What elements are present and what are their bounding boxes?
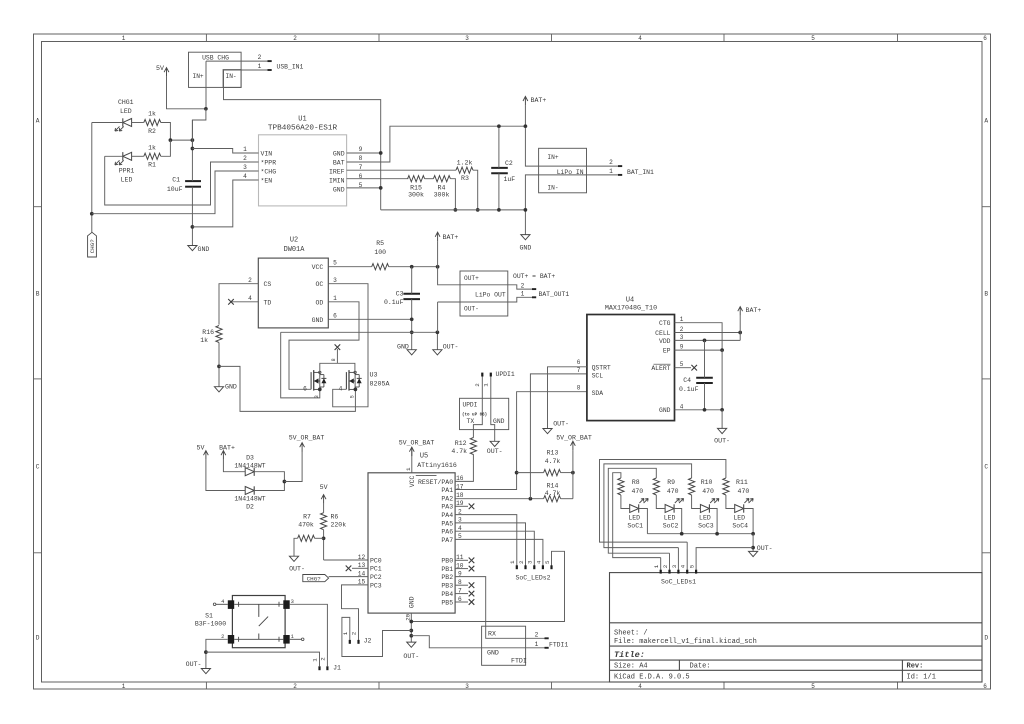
svg-text:2: 2 (609, 159, 613, 166)
svg-text:18: 18 (456, 492, 464, 499)
ground GND below R16 (214, 383, 237, 392)
connector FTDI box (482, 626, 527, 665)
ground OUT- (S1) (186, 661, 211, 674)
svg-text:R14: R14 (547, 483, 559, 490)
svg-text:B: B (984, 290, 988, 297)
svg-text:2: 2 (474, 383, 481, 387)
svg-text:OUT-: OUT- (487, 448, 503, 455)
svg-text:C: C (36, 463, 40, 470)
wire pin stub 3 (677, 548, 679, 570)
svg-text:Rev:: Rev: (907, 663, 924, 671)
title block (610, 623, 983, 682)
svg-text:5V_OR_BAT: 5V_OR_BAT (289, 435, 325, 442)
wire EN pin4 (192, 180, 258, 227)
svg-text:GND: GND (519, 245, 531, 252)
wire R7 left to OUT- (294, 538, 298, 556)
svg-text:SoC2: SoC2 (663, 523, 679, 530)
connector SoC_LEDs1 outline box / sheet comment box (610, 573, 983, 682)
junction GND/C4 (703, 408, 707, 412)
junction OR node (283, 480, 287, 484)
svg-text:OUT-: OUT- (714, 438, 730, 445)
resistor R2 (144, 111, 161, 135)
svg-text:GND: GND (659, 407, 671, 414)
wire LED SoC4 cathode (744, 509, 753, 534)
resistor R13 (544, 449, 561, 475)
wire GND pin5 (347, 187, 381, 189)
power flag BAT+ (diode OR) (219, 445, 235, 460)
wire GND pin6 (328, 318, 411, 320)
transistor U3 right FET (339, 370, 362, 398)
wire R14 right (561, 498, 573, 500)
svg-text:6: 6 (577, 359, 581, 366)
svg-text:UPDI: UPDI (463, 401, 478, 408)
wire OUT- symbol stem (436, 332, 438, 349)
no-connect ALERT pin5 (675, 367, 692, 369)
svg-text:BAT: BAT (333, 159, 345, 166)
wire 5V rail through C1 (191, 120, 193, 181)
svg-text:GND: GND (225, 383, 237, 390)
svg-text:USB_IN1: USB_IN1 (277, 64, 304, 71)
junction pin5 (379, 186, 383, 190)
wire pin stub 1 (660, 558, 662, 570)
svg-text:C4: C4 (683, 377, 691, 384)
no-connect PB0 (455, 559, 468, 561)
svg-text:D3: D3 (246, 454, 254, 461)
wire OUT- to J1 pin1 (206, 652, 320, 666)
wire R16 bottom (218, 343, 220, 387)
wire OUT+ pin 2 (460, 285, 532, 289)
resistor R10 (689, 478, 715, 495)
wire UPDI GND (491, 376, 495, 441)
wire OUT- pin 1 (438, 301, 460, 303)
resistor R8 (618, 478, 643, 495)
resistor R7 (298, 514, 315, 542)
wire 5V to D2 (206, 460, 245, 491)
wire R1 up to junction (161, 140, 171, 156)
svg-text:(to uP 06): (to uP 06) (462, 412, 487, 417)
resistor R14 (544, 483, 561, 502)
U2 pin names (264, 264, 324, 324)
svg-text:300k: 300k (434, 192, 450, 199)
wire OR node to 5V_OR_BAT (284, 452, 302, 482)
no-connect PB3 (455, 584, 468, 586)
wire PC2 (329, 576, 368, 578)
wire PA2 to R14/SCL (455, 498, 543, 500)
wire BAT+ stem (U4) (739, 316, 741, 341)
svg-text:2: 2 (521, 282, 525, 289)
connector UPDI box (460, 398, 509, 429)
svg-text:220k: 220k (331, 522, 347, 529)
svg-text:2: 2 (535, 631, 539, 638)
wire VDD pin3 (675, 339, 741, 341)
U1 left pin numbers (243, 146, 247, 180)
svg-text:Title:: Title: (614, 650, 645, 660)
wire R4 to GND rail (450, 179, 455, 210)
svg-text:S1: S1 (205, 612, 213, 619)
svg-text:FTDI1: FTDI1 (549, 641, 568, 648)
svg-text:4.7k: 4.7k (545, 458, 561, 465)
junction R4 foot (454, 208, 458, 212)
svg-text:470: 470 (667, 488, 679, 495)
capacitor C3 (384, 290, 420, 306)
svg-text:PA3: PA3 (441, 504, 453, 511)
svg-text:CTG: CTG (659, 320, 671, 327)
svg-text:20: 20 (404, 613, 411, 620)
wire PB2 to RX (455, 577, 545, 639)
svg-text:1: 1 (122, 683, 126, 690)
power flag 5V_OR_BAT (right) (556, 434, 592, 450)
svg-text:1N4148WT: 1N4148WT (234, 462, 265, 469)
junction PA1/R13/SDA (515, 471, 519, 475)
no-connect PB5 (455, 601, 468, 603)
resistor R15 (408, 176, 425, 199)
svg-text:LED: LED (699, 515, 711, 522)
svg-text:*EN: *EN (261, 177, 273, 184)
svg-text:3: 3 (333, 277, 337, 284)
svg-text:4.7k: 4.7k (451, 448, 467, 455)
svg-text:1: 1 (535, 641, 539, 648)
wire OD pin1 to left FET gate (289, 302, 359, 390)
op-amp U4 MAX17048G_T10 body (587, 296, 675, 420)
svg-text:SDA: SDA (592, 390, 604, 397)
wire USB IN+ pin 2 (206, 60, 268, 62)
svg-text:BAT_OUT1: BAT_OUT1 (539, 291, 570, 298)
op-amp U5 ATtiny1616 body (368, 453, 457, 613)
svg-text:CS: CS (264, 281, 272, 288)
svg-text:UPDI1: UPDI1 (496, 371, 515, 378)
wire R15-R4 (425, 178, 434, 180)
junction C2 bottom (497, 208, 501, 212)
svg-text:1: 1 (258, 63, 262, 70)
svg-text:5: 5 (333, 260, 337, 267)
wire BAT+ to D3 (223, 460, 245, 472)
svg-text:2: 2 (248, 277, 252, 284)
svg-text:*CHG: *CHG (261, 168, 277, 175)
svg-text:ALERT: ALERT (651, 365, 670, 372)
junction R2/R1 (169, 138, 173, 142)
svg-text:4: 4 (638, 35, 642, 42)
svg-text:PA7: PA7 (441, 537, 453, 544)
svg-text:PA1: PA1 (441, 487, 453, 494)
svg-text:0.1uF: 0.1uF (384, 299, 404, 306)
svg-text:IN+: IN+ (193, 73, 204, 80)
wire VCC pin5 to R5 (328, 266, 371, 268)
junction BAT+/OUT+ (436, 265, 440, 269)
wire PA6 to SoC_LEDs2 pin3 (455, 531, 534, 565)
no-connect TD pin4 (231, 301, 258, 303)
svg-text:5V_OR_BAT: 5V_OR_BAT (399, 439, 435, 446)
svg-text:OUT-: OUT- (553, 420, 569, 427)
svg-text:BAT+: BAT+ (443, 234, 459, 241)
connector LiPo IN (539, 148, 587, 193)
U1 right pin numbers (359, 146, 363, 189)
power flag 5V (156, 65, 169, 77)
wire PPR pin2 (105, 156, 259, 205)
svg-text:PA2: PA2 (441, 495, 453, 502)
junction GND rail 2 (409, 629, 413, 633)
svg-text:J2: J2 (364, 638, 372, 645)
svg-text:OUT-: OUT- (289, 565, 305, 572)
wire feed loop R9 (608, 468, 669, 553)
svg-text:IREF: IREF (329, 168, 345, 175)
connector SoC_LEDs2 pads (516, 565, 553, 569)
svg-text:9: 9 (680, 344, 684, 351)
wire PA1 to R13/SDA (455, 473, 516, 490)
op-amp U1 TPB4056A20-ES1R body (259, 115, 347, 206)
junction left FET drain (318, 388, 322, 392)
svg-text:8: 8 (359, 155, 363, 162)
junction right FET drain (354, 388, 358, 392)
svg-text:3: 3 (465, 35, 469, 42)
wire C2 bottom (498, 173, 500, 210)
wire C2 top (498, 126, 500, 168)
svg-text:OD: OD (315, 299, 323, 306)
connector LiPo OUT (460, 271, 508, 316)
svg-text:U1: U1 (298, 115, 306, 123)
wire R3 to GND rail (473, 170, 478, 210)
svg-text:300k: 300k (408, 192, 424, 199)
svg-text:Size: A4: Size: A4 (614, 663, 648, 671)
svg-text:Sheet: /: Sheet: / (614, 629, 648, 637)
connector UPDI pad 1 (490, 373, 492, 377)
svg-text:D2: D2 (246, 503, 254, 510)
junction GND rail 3 (409, 634, 413, 638)
U5 VCC pin 1 (411, 447, 413, 473)
svg-text:PA4: PA4 (441, 512, 453, 519)
svg-text:1: 1 (680, 316, 684, 323)
resistor R4 (433, 176, 450, 199)
pin 2 end (FTDI) (545, 637, 549, 639)
svg-text:8: 8 (577, 385, 581, 392)
wire R2 to 5V rail (161, 123, 193, 141)
wire pin stub 2 (669, 553, 671, 570)
junction C1 top rail (191, 147, 195, 151)
svg-text:GND: GND (198, 246, 210, 253)
svg-text:PB5: PB5 (441, 599, 453, 606)
svg-text:2: 2 (258, 54, 262, 61)
U1 left pin names (261, 150, 277, 184)
svg-text:5V: 5V (156, 65, 164, 72)
LED CHG1 (115, 99, 134, 131)
junction R13/5V_OR_BAT (571, 471, 575, 475)
svg-text:OUT-: OUT- (186, 661, 202, 668)
svg-text:IN-: IN- (547, 184, 558, 191)
power flag 5V (diode OR) (197, 445, 209, 460)
svg-text:VCC: VCC (312, 264, 324, 271)
wire R7 right (315, 537, 324, 539)
svg-text:CHG?: CHG? (307, 576, 322, 583)
power flag BAT+ top (523, 96, 546, 105)
svg-text:B3F-1000: B3F-1000 (195, 620, 226, 627)
wire PPR1 anode (105, 155, 123, 157)
U5 right pin numbers (456, 475, 464, 603)
pin 1 end (268, 69, 272, 71)
wire D3 to OR node (254, 472, 284, 482)
ground OUT- (U4) (714, 428, 730, 444)
svg-text:MAX17048G_T10: MAX17048G_T10 (605, 305, 657, 313)
svg-text:5V: 5V (320, 484, 328, 491)
svg-text:SoC_LEDs1: SoC_LEDs1 (661, 578, 696, 585)
U5 right pin names (418, 479, 453, 607)
switch S1 B3F-1000 (195, 596, 304, 648)
svg-text:1uF: 1uF (504, 176, 516, 183)
svg-text:3: 3 (680, 334, 684, 341)
wire IN+ down (205, 61, 207, 109)
svg-text:2: 2 (351, 631, 358, 635)
wire OUT- rail (281, 331, 438, 333)
wire feed loop R11 (600, 460, 726, 543)
junction C3 top (410, 265, 414, 269)
overline RESET (416, 474, 437, 476)
wire 5V to R6 (323, 504, 325, 513)
svg-text:4: 4 (243, 173, 247, 180)
svg-text:5: 5 (680, 361, 684, 368)
ground GND below C3 (397, 343, 416, 355)
svg-text:5V: 5V (197, 445, 205, 452)
svg-text:OUT-: OUT- (443, 343, 459, 350)
svg-text:1: 1 (609, 168, 613, 175)
wire rail to OUT- (752, 534, 754, 552)
LED SoC2 (663, 498, 684, 529)
wire CHG pin3 (92, 171, 259, 214)
U5 left pin numbers (358, 554, 366, 586)
svg-text:1: 1 (311, 658, 318, 662)
svg-text:PB3: PB3 (441, 583, 453, 590)
U5 left pin names (370, 557, 382, 589)
svg-text:4: 4 (680, 403, 684, 410)
wire SoC_LEDs2 pin5 to GND rail (411, 551, 564, 621)
wire GND pin4 (675, 409, 723, 411)
power flag BAT+ mid (435, 232, 458, 241)
svg-text:IMIN: IMIN (329, 177, 345, 184)
svg-text:470: 470 (702, 488, 714, 495)
U4 right pin names (651, 320, 670, 414)
svg-text:2: 2 (680, 326, 684, 333)
junction GND stem (524, 208, 528, 212)
svg-text:4: 4 (680, 564, 687, 568)
svg-text:QSTRT: QSTRT (592, 365, 611, 372)
svg-text:ATtiny1616: ATtiny1616 (417, 462, 457, 469)
svg-text:R9: R9 (667, 479, 675, 486)
wire PA5 to SoC_LEDs2 pin2 (455, 523, 525, 566)
junction GND pin6/C3 (410, 317, 414, 321)
svg-text:1k: 1k (148, 144, 156, 151)
svg-text:SoC_LEDs2: SoC_LEDs2 (515, 575, 550, 582)
wire FTDI GND (411, 636, 545, 648)
svg-text:4: 4 (339, 386, 343, 393)
ground GND below LiPo IN (519, 235, 531, 252)
wire R8 to LED (621, 495, 630, 509)
svg-text:RESET/PA0: RESET/PA0 (418, 479, 453, 486)
svg-text:OUT+ = BAT+: OUT+ = BAT+ (513, 273, 555, 280)
svg-text:LED: LED (664, 515, 676, 522)
junction GND rail 1 (409, 620, 413, 624)
svg-text:R3: R3 (461, 175, 469, 182)
junction OUT- rail (436, 330, 440, 334)
connector UPDI pad 2 (481, 373, 483, 377)
svg-text:1: 1 (482, 383, 489, 387)
svg-text:CHG1: CHG1 (118, 99, 134, 106)
svg-text:IN+: IN+ (547, 154, 558, 161)
no-connect PB1 (455, 568, 468, 570)
svg-text:J1: J1 (333, 665, 341, 672)
svg-text:6: 6 (333, 312, 337, 319)
svg-text:File: makercell_v1_final.kicad: File: makercell_v1_final.kicad_sch (614, 638, 757, 646)
SoC_LEDs1 pin numbers (653, 564, 695, 568)
svg-text:GND: GND (409, 596, 416, 608)
svg-text:C1: C1 (172, 177, 180, 184)
no-connect PB4 (455, 593, 468, 595)
ground GND below C1 (188, 246, 210, 254)
svg-text:PPR1: PPR1 (119, 168, 135, 175)
wire CHG net left (91, 123, 93, 233)
svg-text:DW01A: DW01A (284, 246, 306, 254)
svg-text:SoC3: SoC3 (698, 523, 714, 530)
svg-text:470k: 470k (298, 522, 314, 529)
LED SoC1 (627, 498, 648, 529)
wire FET drain rail (320, 363, 355, 372)
wire IN- GND to U1 (224, 70, 381, 210)
wire R6 bottom (323, 530, 325, 560)
wire IMIN pin6 (347, 178, 409, 180)
svg-text:2: 2 (319, 657, 326, 661)
wire R5 to BAT+ (389, 266, 438, 268)
svg-text:R6: R6 (331, 514, 339, 521)
connector USB CHG (189, 52, 242, 87)
wire R10 to LED (692, 495, 701, 509)
resistor R9 (653, 478, 678, 495)
svg-text:D: D (36, 634, 40, 641)
no-connect PA3 (455, 505, 468, 507)
svg-text:LED: LED (628, 515, 640, 522)
wire GND bottom rail (381, 209, 526, 211)
wire CS pin2 (219, 284, 258, 325)
wire pin stub 4 (686, 542, 688, 570)
svg-text:TPB4056A20-ES1R: TPB4056A20-ES1R (268, 125, 338, 133)
global label CHG? (vertical) (88, 232, 97, 257)
pin 1 end (FTDI) (545, 647, 549, 649)
svg-text:7: 7 (577, 367, 581, 374)
wire IN+ to VIN rail (192, 109, 206, 149)
svg-text:2: 2 (518, 560, 525, 564)
junction C3/OUT- rail (410, 330, 414, 334)
svg-text:100: 100 (374, 249, 386, 256)
wire R13 right (561, 472, 573, 474)
svg-text:1k: 1k (148, 111, 156, 118)
svg-text:6: 6 (983, 35, 987, 42)
svg-text:USB CHG: USB CHG (202, 54, 229, 61)
svg-text:TD: TD (264, 299, 272, 306)
junction EN rail (191, 225, 195, 229)
pin 2 end (618, 165, 622, 167)
connector J2 pads (349, 640, 360, 644)
svg-text:A: A (984, 117, 988, 124)
wire J2 pin1 snake (342, 617, 411, 656)
wire C3 top (411, 267, 413, 294)
svg-text:PA5: PA5 (441, 520, 453, 527)
svg-text:R8: R8 (632, 479, 640, 486)
svg-text:VIN: VIN (261, 150, 273, 157)
wire EP pin9 (675, 349, 723, 351)
wire GND pin9 (347, 152, 381, 154)
svg-text:PC0: PC0 (370, 557, 382, 564)
svg-text:PC2: PC2 (370, 574, 382, 581)
ground OUT- below UPDI (487, 441, 503, 455)
svg-text:OUT+: OUT+ (464, 275, 479, 282)
LED SoC3 (698, 498, 719, 529)
wire R9 to LED (656, 495, 665, 509)
svg-text:10uF: 10uF (167, 186, 183, 193)
